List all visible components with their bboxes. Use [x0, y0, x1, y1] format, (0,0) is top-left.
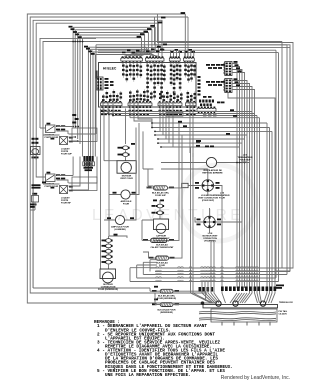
svg-text:FOUR INF: FOUR INF [61, 202, 72, 204]
svg-text:FOUR: FOUR [123, 203, 130, 205]
svg-text:PORTE FOUR: PORTE FOUR [45, 186, 59, 188]
connector CN2 top [145, 58, 164, 61]
fan M1 cooling [206, 157, 216, 167]
wire R2 leads [142, 123, 179, 240]
label P5 [84, 167, 94, 169]
wire SW2 wiring [36, 150, 97, 190]
switch SW2 door lower [46, 174, 56, 182]
junction dots fan line [236, 162, 245, 164]
connector P8 board left [97, 77, 104, 90]
resistor R4 grill lower [160, 289, 173, 293]
wire ladder y111.5 [103, 112, 252, 253]
capacitor C1 box [182, 183, 189, 187]
wire stair2 v95 [95, 55, 158, 157]
svg-text:CALEFF THERMOSTAT: CALEFF THERMOSTAT [151, 246, 175, 249]
wire chain link [108, 247, 110, 250]
connector P5 mid [83, 156, 85, 161]
splice S4 [105, 244, 111, 248]
label R1 [147, 187, 152, 189]
wire chain to motorbox [108, 264, 110, 269]
wire to resistor R1 [143, 131, 203, 169]
label splices S1 S2 [118, 147, 122, 149]
wire chain top [108, 236, 110, 239]
wire top pair 2 [155, 17, 189, 56]
label R4 [154, 286, 158, 288]
wire trunk resume [33, 155, 36, 289]
wire J2 out right [232, 64, 245, 289]
sensor B1 box [154, 219, 169, 230]
junction dots SW1 [72, 126, 79, 142]
motor M5 convection mid [204, 216, 216, 228]
label M4 [195, 182, 199, 184]
terminal T3 [260, 301, 265, 306]
wire mid v121 to splice [125, 109, 127, 145]
splice S3 [105, 239, 111, 243]
label J3 pins [206, 81, 210, 83]
wire ladder y127.5 [152, 128, 270, 256]
label R3 [149, 257, 154, 259]
label board inner top [122, 63, 124, 78]
resistor R2 bake [151, 238, 168, 242]
wire ladder y123.0 [152, 123, 267, 252]
connector CN1 top [121, 58, 143, 61]
wire L1 outer loop [27, 14, 293, 303]
wire SW1 wiring [40, 45, 96, 141]
svg-text:HI ELEC: HI ELEC [103, 67, 117, 71]
wire ladder verticals from connectors [103, 101, 193, 157]
terminal T1 [216, 301, 221, 306]
label CN9 tags [203, 96, 207, 98]
wire ladder y117.7 [130, 118, 260, 250]
wire crossing hops [156, 267, 259, 282]
wire R5 leads [30, 293, 201, 305]
wire R3 leads [143, 135, 182, 258]
wire P6 link [30, 190, 35, 210]
label terminal fan tags [221, 287, 224, 292]
bracket frame lower [72, 177, 97, 191]
svg-text:VENT FOUR: VENT FOUR [120, 178, 133, 180]
wire M4 wiring [161, 169, 222, 250]
wire bus left drops [130, 260, 157, 282]
wire drops to terminal3 fan [222, 250, 275, 303]
label pins below board [101, 110, 104, 112]
wire v242 down [242, 162, 247, 215]
label board inner mid [102, 94, 104, 103]
wire L2 loop [30, 17, 290, 293]
splice S1 [122, 146, 128, 150]
wire mid v109 [109, 109, 127, 239]
wire ladder y147.0 [161, 146, 240, 148]
label M5 [197, 219, 201, 221]
wire stair2 v90 [91, 49, 154, 156]
resistor R1 grill [153, 186, 167, 190]
connector CN5 bottom [101, 103, 123, 106]
board U1 outline [99, 63, 197, 108]
label J3 wire tags [234, 78, 238, 80]
label R5 [152, 303, 157, 305]
svg-text:CA 240V: CA 240V [279, 312, 288, 315]
terminal block bar [203, 305, 278, 308]
cord ticks below [222, 322, 270, 326]
label P8 pins [105, 78, 109, 80]
wire L4 loop [36, 23, 158, 160]
wire stair v80 [80, 35, 145, 144]
wire bus y50.2 [98, 50, 276, 278]
wire stair2 v93 [93, 52, 156, 157]
wire bus y52.6 [98, 53, 279, 282]
breaker F1 on trunk [32, 138, 35, 140]
wire chain link [108, 253, 110, 256]
wire mid v100 [100, 109, 102, 270]
wire J3 out right [232, 81, 255, 289]
wire L3 loop [33, 20, 162, 288]
label wires above CN1 [122, 52, 126, 54]
motor M4 convection upper [202, 180, 214, 192]
wire ladder y115.5 [113, 116, 257, 253]
terminal T2 [233, 301, 238, 306]
wire ladder y135.0 [155, 134, 247, 136]
bracket frame upper [72, 128, 97, 142]
svg-text:(INFERIEUR): (INFERIEUR) [160, 312, 173, 314]
label CA240 tags [276, 285, 284, 287]
wire lamp1 leads [109, 123, 139, 195]
wire stair v77 [78, 33, 149, 139]
wire L6 inner [43, 42, 83, 151]
svg-text:TERM BLOCK: TERM BLOCK [279, 302, 293, 304]
wire bus y41.5 [43, 42, 282, 269]
label board right pins [198, 76, 201, 78]
svg-text:(FOUR SUP): (FOUR SUP) [202, 200, 214, 202]
wire stair v73 [73, 27, 155, 125]
resistor R3 [156, 256, 169, 260]
splice S9 [157, 211, 163, 215]
wire stair v82 [83, 38, 142, 157]
wire to cooling fan [161, 163, 250, 253]
label S8 S9 [152, 205, 156, 207]
connector CN4 top [184, 58, 195, 61]
wire ladder y113.5 [108, 114, 255, 253]
svg-text:Rendered by LeadVenture, Inc.: Rendered by LeadVenture, Inc. [221, 375, 290, 381]
wire R1 wiring [147, 169, 182, 188]
svg-text:PORTE FOUR: PORTE FOUR [45, 137, 59, 139]
lamp DS1 oven light [121, 190, 130, 199]
wire lamp2 leads [104, 128, 136, 221]
connector J3 [225, 79, 232, 93]
label J1 box [166, 113, 183, 117]
wire M5 wiring [195, 208, 242, 233]
label DS2 [107, 217, 111, 219]
wire bus y47.6 [96, 47, 290, 49]
connector J2 [225, 62, 232, 76]
wire bus bottom turns [130, 48, 290, 282]
label left of SW2 [32, 184, 41, 186]
splice S6 [105, 255, 111, 259]
svg-text:FOUR SUP: FOUR SUP [240, 160, 251, 162]
connector CN7 bottom [158, 103, 182, 106]
connector P6 small [32, 196, 39, 203]
wire ladder y139.0 [158, 138, 245, 140]
wire mid v104 [104, 109, 117, 161]
terminal lug left [201, 301, 205, 305]
svg-text:LEADVENTURE: LEADVENTURE [92, 207, 244, 224]
label tags above P5 [72, 114, 76, 116]
wire stair v75 [75, 30, 152, 128]
wire stubs CN3-4 up [171, 50, 194, 56]
wire bus y44.8 [96, 45, 287, 275]
cord box [211, 309, 277, 322]
wire stair2 v88 [88, 47, 151, 156]
label left fan tags [199, 287, 202, 292]
svg-text:FOUR SUP: FOUR SUP [61, 153, 72, 155]
connector CN3 top [169, 58, 180, 61]
wire ladder y131.4 [155, 131, 272, 255]
connector CN8 bottom [186, 103, 197, 106]
cord wavy lines [199, 311, 276, 320]
wire lines into bar [27, 302, 210, 304]
resistor R5 bake lower [160, 303, 173, 307]
wire ladder y143.1 [158, 142, 242, 144]
svg-text:FOUR SUP: FOUR SUP [155, 195, 166, 197]
splice S7 [105, 260, 111, 264]
motor box M2 vent four [117, 161, 136, 174]
switch SW1 door upper [46, 125, 56, 133]
svg-text:REFROID ARRIERE: REFROID ARRIERE [202, 171, 223, 174]
wire chain link [108, 242, 110, 245]
label J2 pins [206, 64, 210, 66]
label top right of M1 [205, 146, 209, 148]
junction dots ladder [102, 111, 162, 148]
svg-text:UNE FOIS LA REPARATION EFFECTU: UNE FOIS LA REPARATION EFFECTUEE. [105, 373, 191, 378]
svg-text:FOUR (INFERIEUR): FOUR (INFERIEUR) [98, 289, 118, 291]
connector CN9 below J3 [199, 100, 201, 103]
svg-text:(LUMIERE): (LUMIERE) [114, 229, 126, 231]
wire S8 chain [159, 200, 161, 219]
wire splice link [125, 150, 127, 161]
junction dots row [72, 41, 83, 43]
wire chain link [108, 258, 110, 261]
svg-text:FOUR (INFERIEUR): FOUR (INFERIEUR) [157, 298, 176, 300]
label stair corners right [150, 25, 155, 27]
wire drops to terminal2 fan [230, 252, 252, 303]
motor box M3 convection lower [100, 269, 116, 279]
wire J3 bottom drop [228, 93, 275, 279]
wire L5 inner [40, 38, 96, 128]
label ladder tags [178, 121, 182, 123]
label DS1 [113, 192, 117, 194]
label chain tags [102, 240, 105, 242]
label R2 [143, 239, 148, 241]
splice S2 [122, 153, 128, 157]
wire left drops to terminal1 [191, 147, 222, 303]
label fan left tag [196, 140, 201, 142]
wire top pair to J-drop [158, 14, 186, 56]
watermark leadventure [180, 165, 256, 241]
wire R4 leads [33, 288, 206, 301]
splice S5 [105, 249, 111, 253]
label J2 wire tags [234, 61, 238, 63]
label stair corners left [69, 26, 73, 28]
connector CN6 bottom [128, 103, 152, 106]
lamp DS2 oven light lower [115, 215, 124, 224]
splice S8 [157, 204, 163, 208]
